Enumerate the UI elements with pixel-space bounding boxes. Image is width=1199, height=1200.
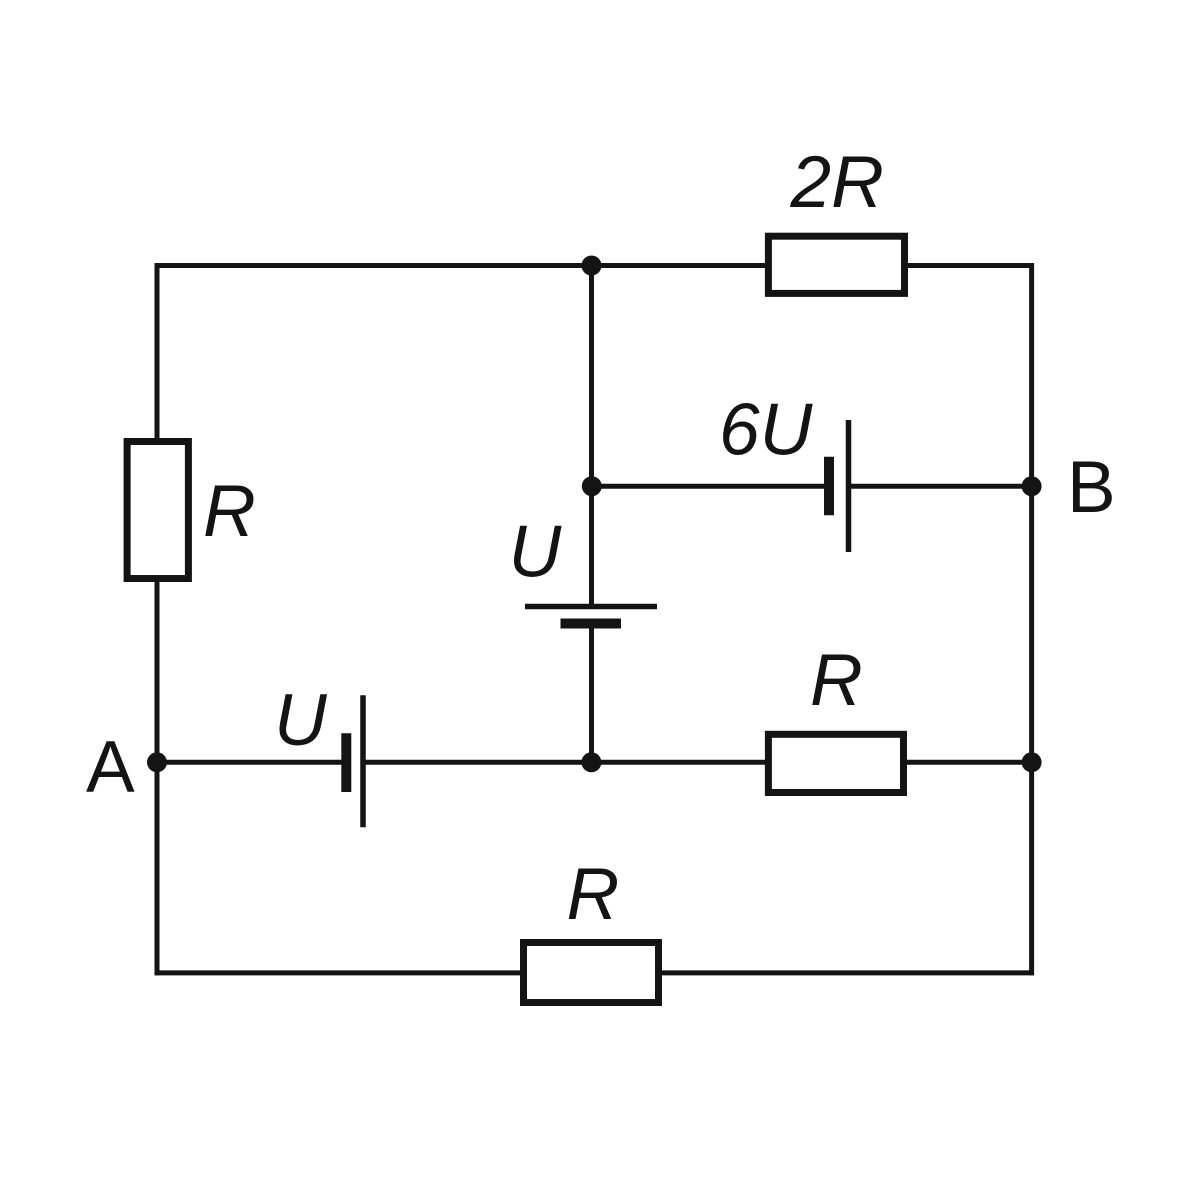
resistor 2R — [768, 236, 904, 293]
svg-text:2R: 2R — [790, 142, 884, 223]
battery U (A row) plate long — [360, 695, 366, 827]
wire bottom side — [155, 970, 1035, 975]
wire top side — [155, 263, 1035, 268]
resistor R bottom — [524, 943, 659, 1003]
node junction top middle — [582, 256, 602, 276]
wire 6U row left — [592, 484, 830, 489]
battery U middle plate long — [525, 604, 657, 610]
wire A row — [157, 760, 346, 765]
node junction middle — [582, 476, 602, 496]
svg-text:B: B — [1067, 447, 1116, 528]
node junction A row right — [1022, 752, 1042, 772]
wire middle vertical lower — [589, 624, 594, 763]
wire right side — [1029, 263, 1034, 975]
svg-text:R: R — [567, 854, 620, 935]
resistor R left — [127, 442, 188, 579]
wire left side — [155, 263, 160, 975]
node junction A row middle — [581, 752, 601, 772]
battery U middle plate short — [561, 619, 622, 629]
svg-text:6U: 6U — [719, 390, 814, 471]
wire middle vertical upper — [589, 266, 594, 607]
svg-text:R: R — [810, 640, 863, 721]
resistor R right (A row) — [768, 734, 903, 792]
wire A row mid — [363, 760, 1032, 765]
node A junction — [147, 752, 167, 772]
wire 6U row right — [849, 484, 1032, 489]
svg-text:A: A — [86, 727, 135, 808]
battery U (A row) plate short — [341, 733, 351, 792]
svg-text:R: R — [203, 471, 256, 552]
svg-text:U: U — [509, 512, 563, 593]
battery 6U plate short — [824, 457, 834, 516]
node B junction — [1022, 476, 1042, 496]
svg-text:U: U — [274, 680, 328, 761]
battery 6U plate long — [846, 420, 852, 552]
